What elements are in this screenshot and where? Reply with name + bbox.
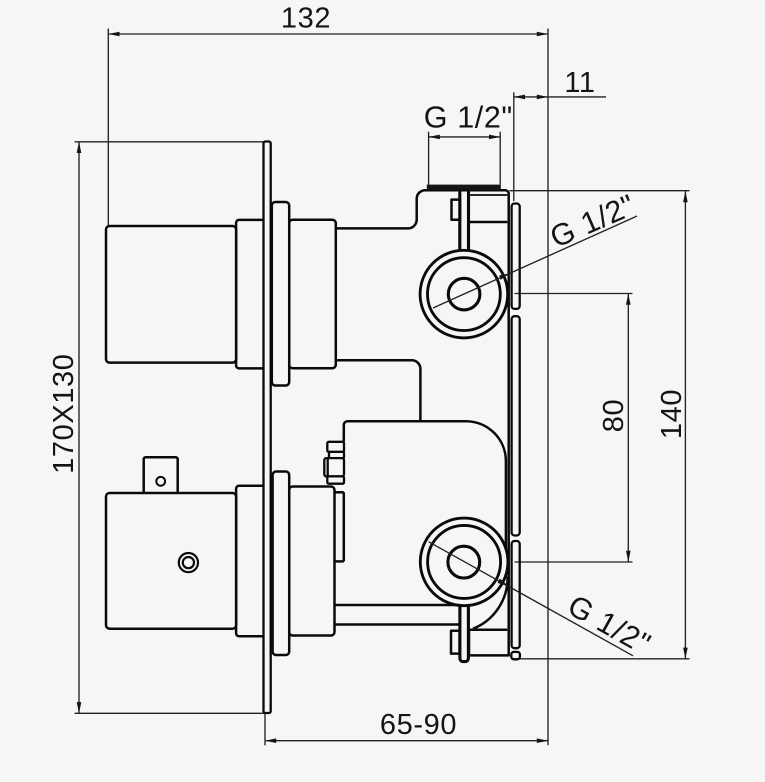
leader G 1/2 top line [433, 216, 637, 308]
svg-text:11: 11 [564, 67, 595, 99]
dimension 170X130 line [78, 142, 80, 714]
bolt stack washer top [327, 442, 344, 452]
dimension 80 line [627, 294, 629, 562]
safety button [144, 457, 178, 493]
bottom port outer circle [420, 518, 508, 606]
mounting bracket foot [511, 652, 520, 659]
dimension 80 extension top [515, 293, 633, 295]
svg-text:140: 140 [656, 389, 688, 439]
top threaded nipple bar [427, 185, 501, 190]
dimension 80 arrows [626, 294, 631, 305]
dimension 140 arrows [683, 191, 688, 202]
valve body step bottom edge [336, 360, 421, 421]
dimension 11 extension line [513, 92, 515, 201]
knob 1 step [236, 220, 266, 369]
dimension 132/65-90 shared extension line right [547, 29, 549, 746]
cartridge tray lines [335, 604, 460, 607]
svg-text:80: 80 [598, 399, 630, 432]
bottom tube clip [451, 631, 460, 654]
svg-text:65-90: 65-90 [380, 709, 457, 741]
leader G 1/2 top arrowhead [499, 273, 510, 280]
knob 1 sleeve [272, 202, 289, 386]
knob 1 body [106, 226, 236, 363]
lower box outline [344, 421, 506, 548]
dimension 65-90 extension left [264, 714, 266, 746]
top port inner circle [448, 278, 480, 310]
leader G 1/2 bottom arrowhead [498, 579, 510, 587]
svg-text:132: 132 [281, 3, 331, 35]
dimension 170X130 extension top [75, 141, 264, 143]
dimension 132 line [108, 33, 548, 35]
mounting bracket segment 2 [512, 316, 520, 535]
bolt stack collar [329, 452, 344, 458]
dimension 65-90 arrows [265, 738, 276, 743]
knob 2 face ring inner [183, 557, 194, 568]
knob 1 adapter [289, 220, 336, 369]
bolt stack washer bottom [327, 476, 344, 483]
dimension 132 extension line left [107, 29, 109, 227]
top port outer circle [420, 250, 508, 338]
dimension 140 extension top [510, 190, 690, 192]
dimension 11 arrows [514, 95, 525, 100]
dimension 170X130 arrows [77, 142, 82, 153]
safety button hole [156, 477, 165, 486]
dimension G 1/2 top arrows [429, 135, 440, 140]
bottom boss top line [469, 628, 507, 631]
mounting bracket segment 1 [512, 204, 520, 309]
svg-text:170X130: 170X130 [48, 354, 80, 474]
top port middle circle [428, 258, 501, 331]
leader G 1/2 bottom line [429, 542, 633, 656]
dimension 140 line [684, 191, 686, 659]
bottom port middle circle [428, 525, 501, 598]
escutcheon flange plate [264, 142, 271, 714]
svg-text:G 1/2": G 1/2" [424, 101, 513, 135]
knob 2 sleeve [273, 472, 290, 656]
bolt stack nut [324, 458, 344, 476]
dimension 140 extension bottom [511, 658, 690, 660]
dimension 132 arrows [108, 32, 119, 37]
top boss inner line thin [470, 194, 507, 196]
knob 2 step [236, 486, 266, 636]
dimension 170X130 extension bottom [75, 712, 264, 714]
dimension 80 extension bottom [515, 561, 633, 563]
knob 2 adapter [289, 487, 334, 636]
top tube clip [452, 200, 461, 220]
bottom outlet tube [460, 605, 469, 662]
top inlet tube walls [458, 191, 461, 251]
knob 2 body [106, 493, 236, 629]
dimension G 1/2 top extension lines [428, 132, 430, 185]
dimension 11 line [514, 96, 606, 98]
valve body outline [336, 190, 509, 655]
dimension G 1/2 top line [429, 136, 501, 138]
lower box bottom-right arc [473, 577, 508, 629]
top boss bottom line [470, 221, 507, 224]
knob 2 face ring outer [179, 553, 198, 572]
bottom port inner circle [448, 546, 480, 578]
lower box left edge segment and caps [343, 492, 346, 561]
mounting bracket segment 3 [512, 541, 520, 648]
dimension 65-90 line [266, 740, 548, 742]
